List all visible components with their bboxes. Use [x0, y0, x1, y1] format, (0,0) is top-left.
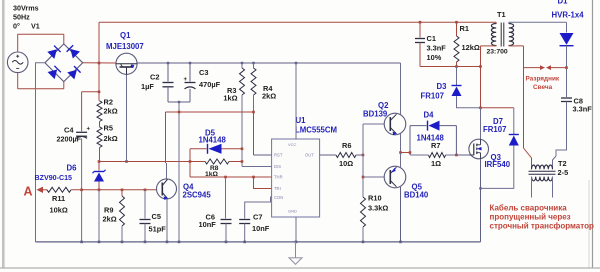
capacitor C6 10nF [221, 219, 232, 221]
svg-text:V1: V1 [31, 22, 40, 31]
wire D1 anode to C8 [566, 46, 568, 98]
wire down to Q4 collector [165, 112, 167, 163]
svg-text:+: + [184, 77, 188, 83]
svg-text:3.3nF: 3.3nF [427, 44, 447, 53]
wire C8 bottom to T2 [556, 102, 567, 157]
bridge rectifier D2 diamond [45, 44, 83, 82]
wire V1 bottom lead down [17, 73, 19, 89]
wire V1 top lead up [17, 34, 19, 52]
resistor R11 [47, 187, 71, 192]
svg-text:строчный трансформатор: строчный трансформатор [490, 222, 594, 231]
svg-text:R6: R6 [342, 141, 351, 150]
svg-text:10nF: 10nF [199, 220, 217, 229]
wire drain column upper [480, 46, 482, 108]
svg-text:R1: R1 [460, 24, 469, 33]
svg-text:GND: GND [288, 209, 297, 214]
transistor Q2 BD139 [384, 113, 406, 135]
wire gate lead to Q3 [456, 154, 469, 156]
wire R2-R5 junction [99, 122, 101, 127]
diode D1 HVR-1x4 [560, 33, 574, 45]
bridge diode upper-left [47, 45, 61, 59]
bridge diode lower-left [48, 66, 62, 80]
svg-text:D4: D4 [424, 111, 435, 120]
svg-text:HVR-1x4: HVR-1x4 [552, 11, 585, 20]
svg-text:1N4148: 1N4148 [199, 136, 227, 145]
wire Q5 collector to midpoint [400, 153, 402, 168]
wire zener column to bus [98, 190, 100, 242]
svg-text:1µF: 1µF [141, 82, 154, 91]
transistor Q5 BD140 [384, 166, 406, 188]
bridge diode lower-right [67, 66, 81, 80]
resistor R9 [121, 190, 123, 196]
svg-text:30Vrms: 30Vrms [13, 4, 39, 13]
transistor Q1 MJE13007 [116, 53, 137, 74]
wire Q2 collector to rail [400, 63, 402, 115]
svg-text:1Ω: 1Ω [431, 159, 441, 168]
diode D4 1N4148 [429, 121, 440, 131]
svg-text:C3: C3 [199, 68, 208, 77]
wire raw DC riser x99 [98, 22, 100, 63]
svg-text:BZV90-C15: BZV90-C15 [35, 174, 73, 182]
wire D5/R8 left node down [189, 149, 191, 177]
wire R6 to driver node [356, 154, 363, 156]
wire regulated rail Q1 emitter to Q2 [136, 62, 400, 64]
wire secondary bottom right [509, 45, 524, 47]
wire U1 GND to bus [295, 217, 297, 242]
wire T2 secondary left stub [531, 177, 533, 198]
wire zener anode lead [98, 182, 100, 190]
svg-text:R5: R5 [104, 124, 113, 133]
wire D4 anode lead [440, 125, 457, 127]
wire D7 anode to source [481, 146, 514, 189]
svg-text:R10: R10 [368, 194, 382, 203]
wire R4 bottom lead [253, 95, 255, 112]
wire C1 bottom lead [419, 43, 421, 67]
svg-text:12kΩ: 12kΩ [462, 43, 480, 52]
svg-text:C2: C2 [150, 73, 159, 82]
transistor Q3 IRF540 MOSFET [469, 139, 489, 159]
wire D4 cathode lead [410, 125, 427, 127]
svg-text:THR: THR [274, 175, 283, 180]
wire zener cathode lead [98, 162, 100, 171]
svg-text:BD140: BD140 [404, 191, 429, 200]
wire bridge right corner to Q1 collector [83, 62, 117, 64]
wire THR net to U1 [190, 176, 272, 178]
wire zener node row to R8 left node [99, 161, 190, 163]
wire drain lead to Q3 [480, 108, 482, 140]
capacitor C2 1uF [163, 82, 174, 84]
transformer T2 [532, 165, 553, 169]
wire C2 top lead [167, 63, 169, 82]
page border right [592, 0, 594, 268]
svg-text:2200µF: 2200µF [56, 135, 81, 144]
op-amp U1 LMC555CM box [272, 139, 320, 217]
resistor R5 [97, 127, 102, 148]
svg-text:CON: CON [274, 195, 283, 200]
svg-text:FR107: FR107 [483, 125, 506, 134]
wire into U1 DIS [242, 166, 272, 168]
wire T2 right shoulder [553, 156, 557, 169]
svg-text:LMC555CM: LMC555CM [295, 126, 337, 135]
svg-text:FR107: FR107 [421, 92, 444, 101]
svg-text:51pF: 51pF [149, 225, 167, 234]
wire R3 bottom to DIS pin [241, 95, 243, 167]
svg-text:R9: R9 [104, 206, 113, 215]
wire Q2 emitter to midpoint [400, 134, 402, 153]
svg-text:470µF: 470µF [199, 80, 221, 89]
capacitor C4 2200uF [76, 131, 87, 133]
svg-text:IRF540: IRF540 [485, 160, 511, 169]
svg-text:2kΩ: 2kΩ [103, 215, 117, 224]
svg-text:C5: C5 [152, 212, 161, 221]
resistor R2 [97, 101, 102, 122]
svg-text:1kΩ: 1kΩ [223, 94, 237, 103]
svg-text:Q1: Q1 [120, 31, 131, 40]
capacitor C8 3.3nF [561, 97, 572, 99]
svg-text:2SC945: 2SC945 [183, 191, 212, 200]
wire TRI jog into U1 [254, 177, 272, 189]
resistor R10 [361, 197, 366, 227]
wire spark column down to T2 [523, 46, 525, 148]
wire T1 primary bottom pin [495, 44, 497, 47]
svg-text:D1: D1 [558, 0, 569, 6]
wire D4/R7 left node [409, 126, 411, 155]
svg-text:C1: C1 [427, 34, 436, 43]
svg-text:VCC: VCC [288, 142, 297, 147]
diode D7 FR107 [509, 136, 519, 146]
wire up to bridge bottom corner [63, 81, 65, 89]
wire U1 OUT lead [320, 154, 336, 156]
wire node to C4 top [82, 91, 99, 93]
wire C3 bottom lead [189, 89, 191, 102]
wire filter mid column down to bus [178, 102, 180, 242]
AC source V1 [7, 52, 28, 73]
svg-text:D6: D6 [67, 164, 78, 173]
wire D5 cathode lead [190, 148, 207, 150]
svg-text:2kΩ: 2kΩ [262, 92, 276, 101]
wire C4 top lead [81, 92, 83, 132]
svg-text:C7: C7 [253, 213, 262, 222]
page border left [2, 0, 4, 268]
resistor R1 [456, 22, 458, 36]
svg-text:10%: 10% [427, 53, 442, 62]
bridge diode upper-right [66, 45, 80, 59]
svg-text:D3: D3 [437, 82, 448, 91]
svg-text:U1: U1 [296, 116, 307, 125]
svg-text:R7: R7 [431, 141, 440, 150]
capacitor C3 470uF electrolytic [185, 82, 196, 84]
resistor R8 [190, 161, 205, 163]
wire primary bottom to drain column [481, 45, 497, 47]
wire down to C6 [225, 177, 227, 219]
wire T2 secondary right stub [552, 177, 554, 198]
svg-text:MJE13007: MJE13007 [106, 42, 144, 51]
svg-text:Кабель сварочника: Кабель сварочника [490, 204, 568, 213]
wire Q3 source to bus [480, 159, 482, 242]
svg-text:23:700: 23:700 [487, 49, 508, 56]
spark gap annotation wire [524, 67, 542, 69]
svg-text:T1: T1 [497, 10, 506, 19]
wire C1 top lead [419, 22, 421, 37]
svg-text:2-5: 2-5 [558, 168, 569, 177]
wire drain node to D7 [481, 107, 514, 109]
svg-text:C4: C4 [64, 126, 74, 135]
wire C7 top to U1 CON [245, 197, 272, 219]
wire into U1 RST [254, 154, 272, 156]
wire ground bus [36, 241, 481, 243]
svg-text:Разрядник: Разрядник [526, 76, 560, 83]
svg-text:DIS: DIS [274, 164, 281, 169]
wire Q1 base down [126, 75, 128, 162]
svg-text:50Hz: 50Hz [13, 13, 30, 22]
wire bridge left corner down to ground bus [36, 63, 45, 242]
wire Q4 collector net y112 [166, 111, 254, 113]
wire Q4 emitter to bus [166, 199, 168, 242]
wire T1 secondary top pin [508, 22, 510, 24]
wire x99 down to R2 [98, 63, 100, 101]
wire U1 VCC feed [295, 63, 297, 139]
capacitor C1 3.3nF [415, 38, 425, 40]
wire Q5 base [363, 176, 384, 178]
wire C4 bottom to ground bus [81, 138, 83, 242]
wire midpoint to R7 node [401, 152, 411, 154]
wire C2 bottom lead [167, 87, 169, 102]
wire C1/R1 bottom net [420, 66, 481, 68]
diode D3 FR107 [452, 87, 462, 97]
svg-text:+: + [87, 127, 91, 133]
wire D3 cathode lead [456, 67, 458, 86]
svg-text:10Ω: 10Ω [339, 159, 353, 168]
svg-text:3.3nF: 3.3nF [573, 105, 593, 114]
diode D5 1N4148 [209, 144, 222, 154]
svg-text:2kΩ: 2kΩ [104, 134, 118, 143]
resistor R7 [428, 153, 445, 158]
wire R4 to RST [253, 112, 255, 155]
wire base row to Q4 [99, 189, 156, 191]
wire T1 primary top pin [495, 22, 497, 24]
wire A arrow to R11 [43, 189, 47, 191]
wire R5 bottom lead [99, 148, 101, 162]
wire D3 anode to drain node [457, 96, 481, 108]
svg-text:BD139: BD139 [363, 110, 388, 119]
wire Q5 emitter to bus [400, 187, 402, 242]
wire T1 secondary bottom pin [508, 44, 510, 47]
capacitor C5 51pF [144, 190, 146, 219]
svg-text:A: A [24, 185, 33, 199]
svg-text:R11: R11 [52, 194, 65, 203]
node C2-C3 bottom [168, 101, 190, 103]
wire secondary top to D1 [509, 21, 567, 23]
transformer T1 [491, 24, 496, 46]
svg-text:пропущенный через: пропущенный через [490, 213, 571, 222]
page border bottom [0, 267, 600, 269]
svg-text:Свеча: Свеча [533, 84, 553, 91]
wire R11 to zener anode node [71, 189, 99, 191]
wire D4/R7 right node [455, 126, 457, 155]
wire V1 bottom to bridge bottom [18, 88, 64, 90]
wire D5 anode lead [222, 148, 243, 150]
resistor R3 [241, 63, 243, 68]
svg-text:TRI: TRI [274, 186, 281, 191]
wire D1 cathode lead [566, 22, 568, 32]
transistor Q4 2SC945 [157, 179, 177, 199]
wire V1 top to bridge top [18, 33, 64, 35]
wire C3 top lead [189, 63, 191, 82]
resistor R4 [253, 63, 255, 68]
wire down to bridge top corner [63, 34, 65, 44]
zener diode D6 BZV90-C15 [94, 173, 104, 182]
svg-text:3.3kΩ: 3.3kΩ [368, 204, 388, 213]
wire D7 cathode lead [513, 108, 515, 134]
wire top rail +V raw [99, 21, 496, 23]
resistor R6 [336, 153, 356, 158]
svg-text:R2: R2 [104, 97, 113, 106]
wire T2 left shoulder [524, 148, 532, 169]
svg-text:RST: RST [274, 153, 283, 158]
svg-text:T2: T2 [558, 159, 567, 168]
wire Q4 collector lead [166, 163, 168, 179]
svg-text:10kΩ: 10kΩ [50, 206, 68, 215]
svg-text:0°: 0° [13, 22, 20, 31]
wire driver node column [362, 124, 364, 197]
ground [295, 242, 297, 258]
svg-text:OUT: OUT [305, 153, 314, 158]
svg-text:2kΩ: 2kΩ [104, 106, 118, 115]
wire Q2 base [363, 123, 384, 125]
svg-text:10nF: 10nF [252, 224, 270, 233]
